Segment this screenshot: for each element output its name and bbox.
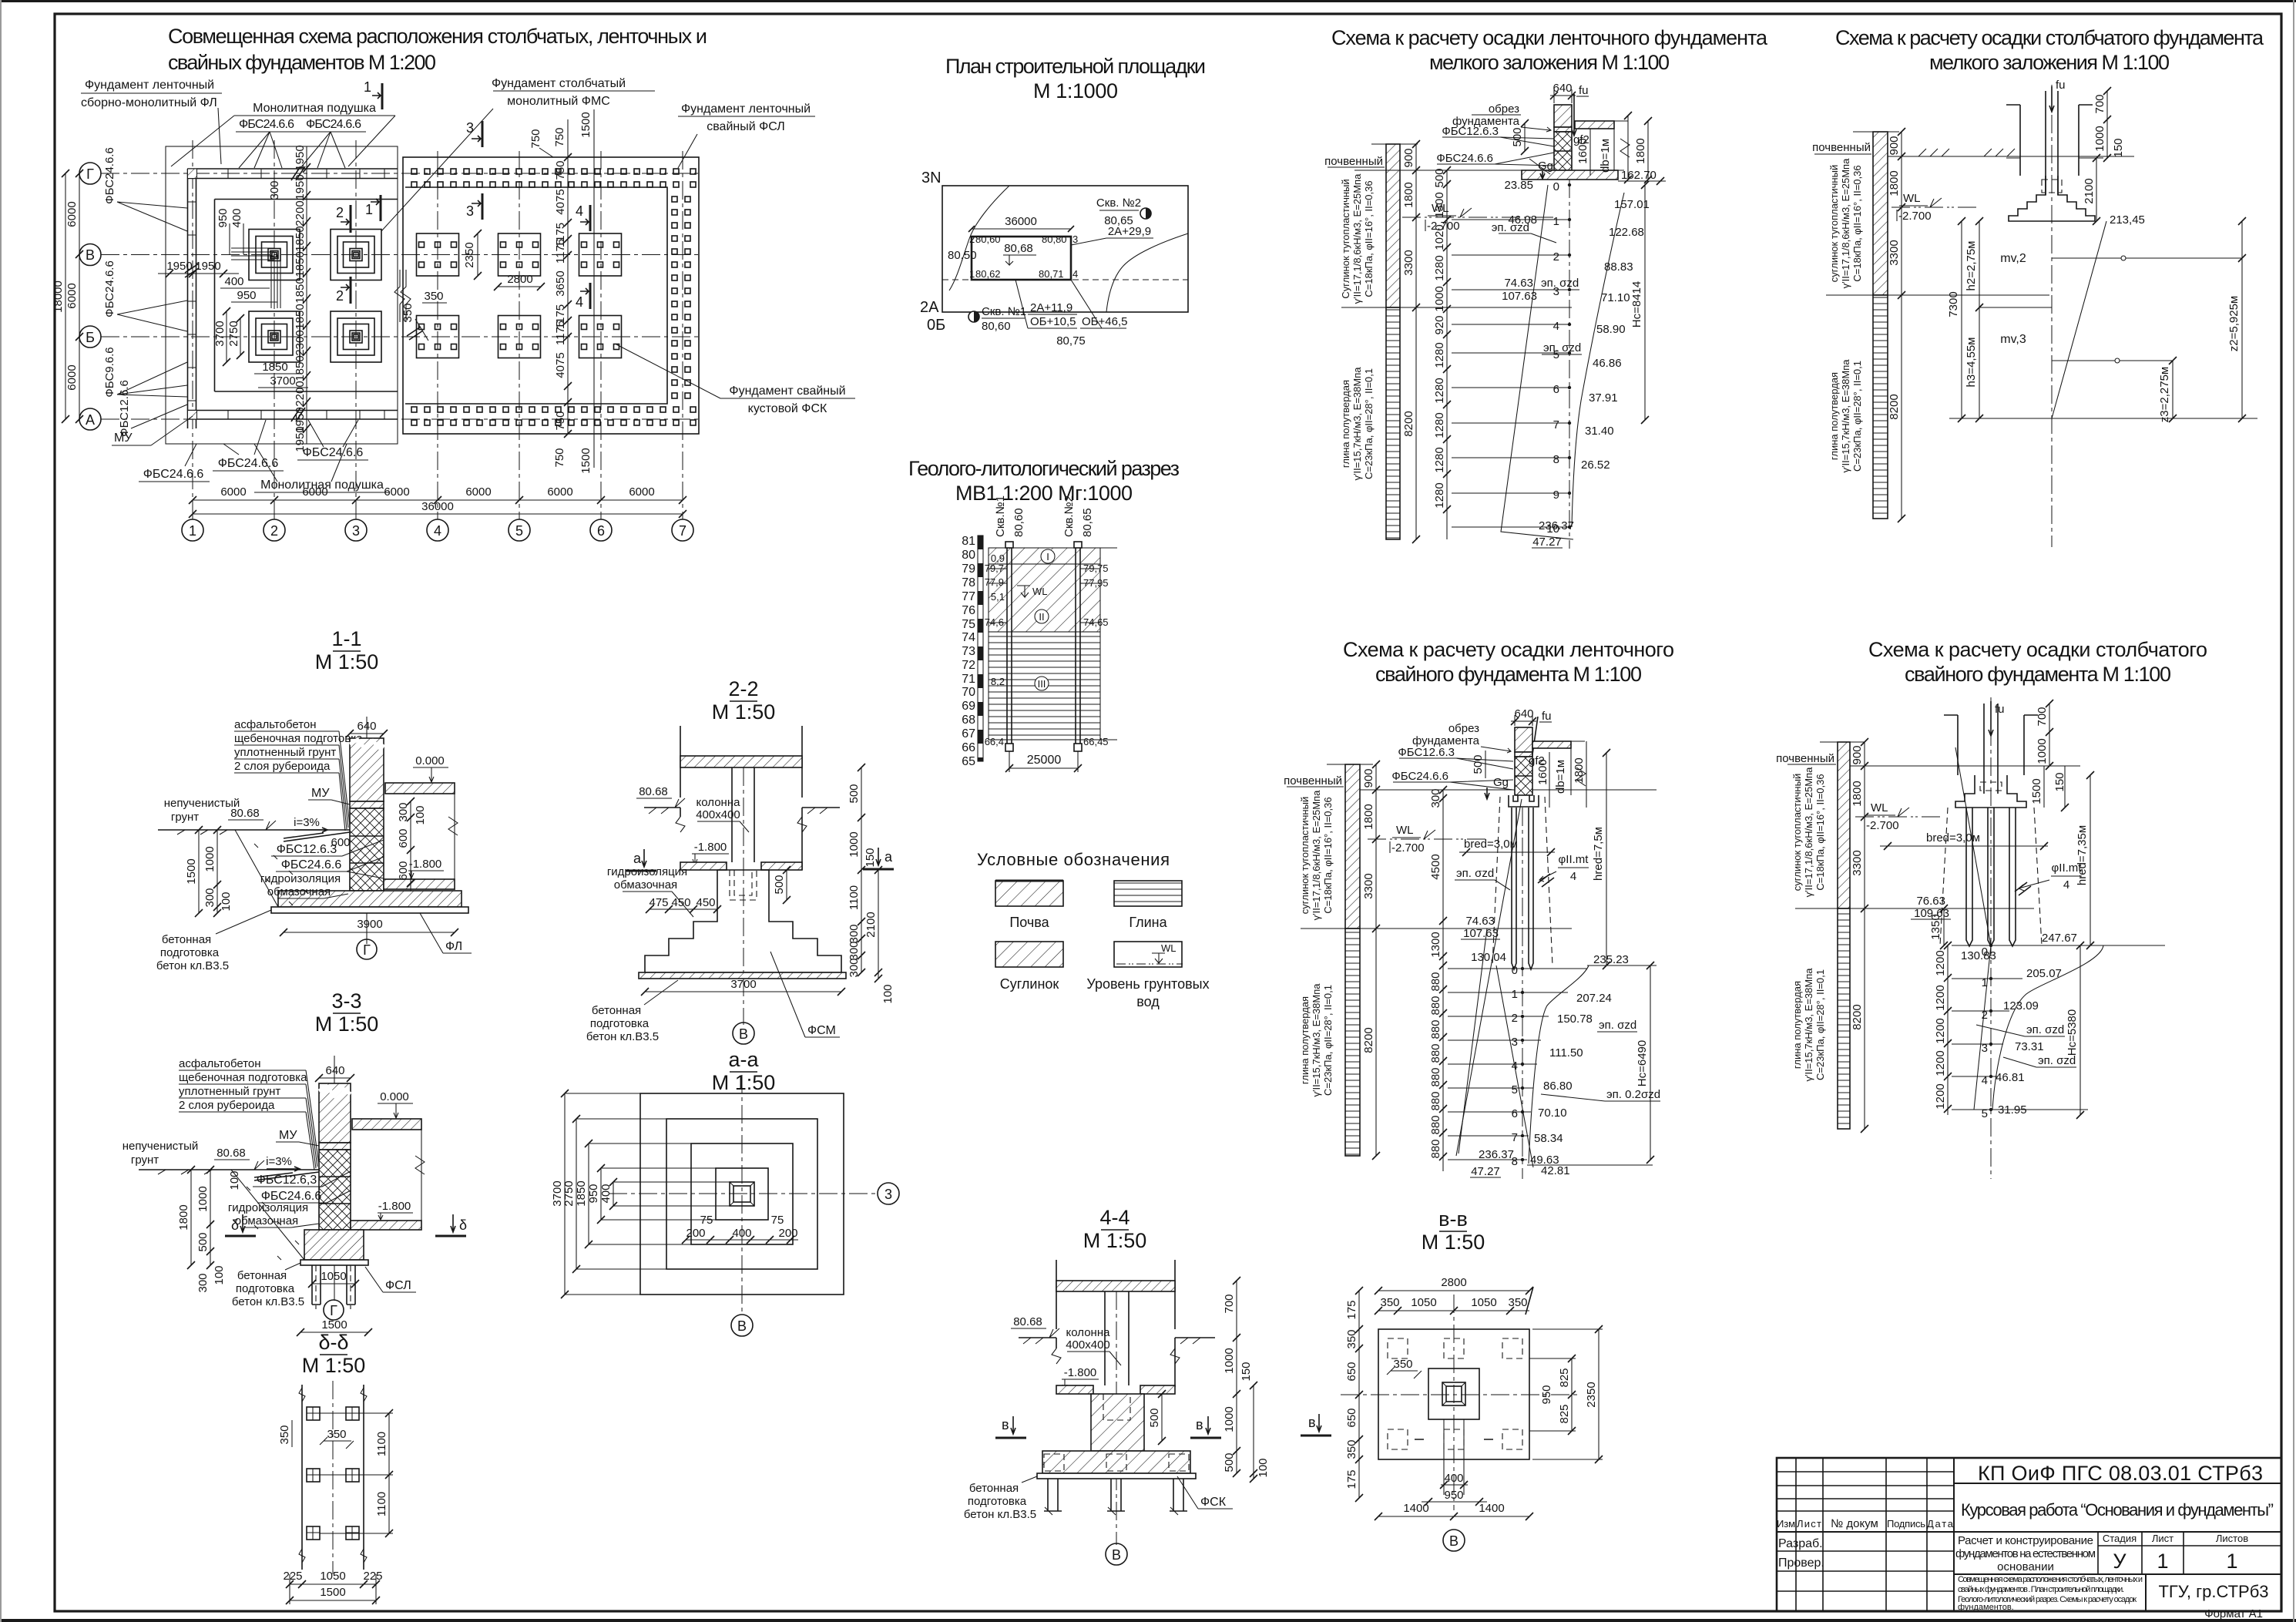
svg-text:2 слоя рубероида: 2 слоя рубероида bbox=[234, 760, 331, 773]
svg-text:В: В bbox=[1449, 1533, 1458, 1549]
svg-text:1280: 1280 bbox=[1433, 378, 1446, 403]
svg-text:γ′II=17,1/8,6кН/м3, Е=25Мпа: γ′II=17,1/8,6кН/м3, Е=25Мпа bbox=[1311, 790, 1322, 920]
svg-text:глина полутвердая: глина полутвердая bbox=[1791, 981, 1803, 1069]
anchor lines below foundation B2 bbox=[271, 255, 280, 309]
designation cell bbox=[1954, 1483, 2281, 1484]
MU slab bbox=[350, 801, 384, 808]
svg-text:640: 640 bbox=[357, 720, 376, 733]
svg-text:a-a: a-a bbox=[728, 1048, 759, 1071]
dims 1400 1400 bbox=[1378, 1516, 1529, 1517]
svg-text:WL: WL bbox=[1432, 202, 1449, 215]
svg-text:Почва: Почва bbox=[1009, 915, 1049, 930]
svg-text:3: 3 bbox=[1512, 1036, 1518, 1049]
anchor socket dashed bbox=[730, 870, 757, 900]
svg-text:2А+11,9: 2А+11,9 bbox=[1030, 301, 1072, 314]
column foundation ФМС Б2 bbox=[249, 311, 300, 362]
svg-text:450: 450 bbox=[696, 896, 715, 909]
svg-text:Схема к расчету осадки ленточ: Схема к расчету осадки ленточного фундам… bbox=[1331, 26, 1768, 49]
svg-text:i=3%: i=3% bbox=[294, 816, 320, 829]
pile cut marks row2 center bbox=[1415, 1439, 1493, 1440]
elevation scale bar bbox=[978, 536, 983, 761]
svg-text:1: 1 bbox=[365, 202, 373, 217]
svg-text:Суглинок тугопластичный: Суглинок тугопластичный bbox=[1340, 179, 1351, 298]
axis circle V bbox=[1443, 1530, 1465, 1551]
svg-text:2: 2 bbox=[336, 205, 344, 220]
bedding slab bbox=[271, 907, 468, 913]
svg-text:эп. 0.2σzd: эп. 0.2σzd bbox=[1606, 1088, 1660, 1101]
svg-text:1280: 1280 bbox=[1433, 342, 1446, 368]
column portal bbox=[2006, 105, 2093, 176]
soil column bbox=[1386, 144, 1400, 307]
svg-text:950: 950 bbox=[1540, 1385, 1553, 1404]
wall axis bbox=[334, 1056, 335, 1301]
svg-text:74.63: 74.63 bbox=[1465, 915, 1495, 928]
svg-text:WL: WL bbox=[1903, 192, 1921, 205]
bottom dim 3900 bbox=[284, 932, 455, 933]
svg-text:76.63: 76.63 bbox=[1916, 895, 1945, 908]
svg-text:500: 500 bbox=[1511, 127, 1524, 146]
svg-text:свайных фундаментов . План стр: свайных фундаментов . План строительной … bbox=[1958, 1585, 2124, 1594]
svg-text:В: В bbox=[86, 247, 95, 263]
foundation slab level bbox=[1056, 1385, 1093, 1394]
svg-text:КП ОиФ ПГС 08.03.01 СТРб3: КП ОиФ ПГС 08.03.01 СТРб3 bbox=[1978, 1462, 2263, 1485]
svg-text:гидроизоляция: гидроизоляция bbox=[228, 1201, 308, 1214]
svg-text:5: 5 bbox=[1512, 1083, 1518, 1096]
svg-text:δ-δ: δ-δ bbox=[318, 1331, 348, 1354]
svg-text:эп. σzd: эп. σzd bbox=[1492, 221, 1529, 234]
svg-text:М 1:50: М 1:50 bbox=[302, 1354, 366, 1377]
svg-text:2: 2 bbox=[336, 288, 344, 304]
svg-text:Уровень грунтовых: Уровень грунтовых bbox=[1086, 976, 1209, 992]
floor slab bbox=[1532, 741, 1571, 748]
svg-text:1400: 1400 bbox=[1479, 1502, 1504, 1515]
svg-text:80,50: 80,50 bbox=[948, 249, 977, 262]
svg-text:3700: 3700 bbox=[730, 978, 756, 991]
svg-text:бетон кл.В3.5: бетон кл.В3.5 bbox=[156, 959, 229, 972]
svg-text:150: 150 bbox=[2112, 138, 2125, 157]
Hc dimension bbox=[1644, 185, 1646, 420]
svg-text:4: 4 bbox=[1072, 268, 1078, 280]
svg-text:II: II bbox=[1039, 611, 1044, 623]
svg-text:-2.700: -2.700 bbox=[1898, 210, 1932, 223]
svg-text:1280: 1280 bbox=[1433, 482, 1446, 508]
svg-text:γ′II=17,1/8,6кН/м3, Е=25Мпа: γ′II=17,1/8,6кН/м3, Е=25Мпа bbox=[1803, 767, 1814, 897]
building rect bbox=[972, 237, 1071, 280]
svg-text:эп. σzd: эп. σzd bbox=[1543, 341, 1581, 354]
column square bbox=[1442, 1382, 1465, 1405]
column foundation ФМС В3 bbox=[331, 230, 381, 280]
svg-text:100: 100 bbox=[881, 984, 895, 1003]
svg-text:1: 1 bbox=[2157, 1550, 2168, 1573]
foundation wall bbox=[1515, 727, 1532, 752]
svg-text:3300: 3300 bbox=[1888, 240, 1901, 265]
central dimension chain bbox=[306, 146, 307, 444]
svg-text:1500: 1500 bbox=[320, 1586, 345, 1599]
svg-text:1850: 1850 bbox=[294, 251, 307, 277]
svg-text:ФСЛ: ФСЛ bbox=[385, 1279, 411, 1292]
svg-text:6000: 6000 bbox=[65, 364, 79, 390]
svg-text:mv,2: mv,2 bbox=[2000, 252, 2026, 265]
svg-text:6000: 6000 bbox=[65, 283, 79, 308]
water level swatch bbox=[1114, 942, 1182, 967]
svg-text:Скв. №1: Скв. №1 bbox=[982, 305, 1026, 318]
axis circle G bbox=[357, 939, 377, 959]
svg-text:колонна: колонна bbox=[697, 796, 741, 809]
ground hatch marks bbox=[1918, 149, 2015, 156]
svg-text:ФБС24.6.6: ФБС24.6.6 bbox=[103, 260, 116, 317]
svg-text:750: 750 bbox=[554, 160, 567, 180]
svg-text:ФБС24.6.6: ФБС24.6.6 bbox=[281, 858, 342, 871]
svg-text:бетон кл.В3.5: бетон кл.В3.5 bbox=[964, 1508, 1036, 1521]
svg-text:ФБС24.6.6: ФБС24.6.6 bbox=[303, 446, 364, 459]
svg-text:γ′II=15,7кН/м3, Е=38Мпа: γ′II=15,7кН/м3, Е=38Мпа bbox=[1803, 968, 1814, 1082]
soil swatch bbox=[995, 881, 1063, 906]
svg-text:1850: 1850 bbox=[294, 226, 307, 251]
svg-text:обмазочная: обмазочная bbox=[235, 1214, 298, 1227]
wall bbox=[350, 738, 384, 801]
pile dashed boundaries bbox=[1940, 808, 2042, 945]
bedding slab bbox=[1037, 1473, 1196, 1479]
pile cluster ФСК 4В bbox=[417, 233, 459, 276]
svg-text:эп. σzd: эп. σzd bbox=[1599, 1019, 1636, 1032]
svg-text:350: 350 bbox=[278, 1425, 291, 1444]
svg-text:ТГУ, гр.СТРб3: ТГУ, гр.СТРб3 bbox=[2158, 1582, 2268, 1601]
loam swatch bbox=[995, 942, 1063, 967]
svg-text:880: 880 bbox=[1429, 1091, 1442, 1110]
svg-text:80.68: 80.68 bbox=[217, 1147, 246, 1160]
svg-text:ФБС24.6.6: ФБС24.6.6 bbox=[306, 118, 361, 131]
svg-text:6000: 6000 bbox=[220, 485, 246, 499]
svg-text:fu: fu bbox=[1995, 703, 2005, 716]
bottom dims bbox=[290, 1583, 376, 1585]
svg-text:400: 400 bbox=[599, 1184, 613, 1203]
ground hatch near column bbox=[1944, 765, 2042, 767]
svg-text:Г: Г bbox=[86, 166, 94, 182]
svg-text:400: 400 bbox=[732, 1227, 751, 1240]
svg-text:1200: 1200 bbox=[1934, 950, 1947, 976]
bottom axis circles 1-7 bbox=[182, 519, 693, 541]
svg-text:Г: Г bbox=[363, 942, 371, 958]
svg-text:щебеночная подготовка: щебеночная подготовка bbox=[179, 1071, 307, 1084]
svg-text:150.78: 150.78 bbox=[1557, 1012, 1593, 1026]
wall lines bbox=[680, 726, 802, 870]
sigma curve bbox=[1529, 965, 1589, 1164]
svg-text:ОБ+46,5: ОБ+46,5 bbox=[1082, 315, 1127, 328]
svg-text:Формат А1: Формат А1 bbox=[2204, 1607, 2263, 1620]
sigma diagonal left bbox=[1501, 185, 1573, 539]
svg-text:γ′II=15,7кН/м3, Е=38Мпа: γ′II=15,7кН/м3, Е=38Мпа bbox=[1311, 983, 1322, 1097]
bottom dimension row 6000s bbox=[193, 500, 683, 514]
svg-text:Фундамент столбчатый: Фундамент столбчатый bbox=[492, 77, 626, 90]
svg-text:У: У bbox=[2113, 1550, 2126, 1573]
svg-text:3300: 3300 bbox=[1362, 873, 1375, 898]
svg-text:непученистый: непученистый bbox=[123, 1140, 199, 1153]
svg-text:фундаментов на естественном: фундаментов на естественном bbox=[1955, 1547, 2096, 1560]
borehole 1 symbol bbox=[968, 311, 979, 322]
svg-text:Совмещенная схема расположения: Совмещенная схема расположения столбчаты… bbox=[1958, 1575, 2143, 1584]
svg-text:γ′II=17,1/8,6кН/м3, Е=25Мпа: γ′II=17,1/8,6кН/м3, Е=25Мпа bbox=[1351, 173, 1363, 304]
svg-text:1200: 1200 bbox=[1934, 1083, 1947, 1109]
svg-text:1175: 1175 bbox=[554, 239, 567, 264]
svg-text:-2.700: -2.700 bbox=[1427, 220, 1460, 233]
ground line bbox=[1354, 144, 1624, 170]
svg-text:Скв.№2: Скв.№2 bbox=[1062, 495, 1076, 537]
svg-text:Изм: Изм bbox=[1777, 1518, 1795, 1530]
svg-text:4: 4 bbox=[1570, 870, 1576, 883]
layer boundary bbox=[1301, 928, 1572, 929]
page right edge bbox=[2293, 0, 2294, 1622]
svg-text:225: 225 bbox=[283, 1570, 302, 1583]
anchor dashed bbox=[1103, 1394, 1130, 1420]
svg-text:600: 600 bbox=[397, 861, 410, 880]
svg-text:650: 650 bbox=[1345, 1362, 1358, 1381]
svg-text:3: 3 bbox=[884, 1187, 892, 1202]
svg-text:71: 71 bbox=[962, 673, 975, 686]
svg-text:1800: 1800 bbox=[1573, 757, 1586, 783]
svg-text:950: 950 bbox=[587, 1184, 600, 1203]
svg-text:В: В bbox=[737, 1318, 747, 1334]
ceiling slab bbox=[1056, 1281, 1175, 1291]
svg-text:бетонная: бетонная bbox=[969, 1482, 1019, 1495]
svg-text:3650: 3650 bbox=[554, 270, 567, 296]
svg-text:80.68: 80.68 bbox=[1013, 1315, 1042, 1328]
borehole 2 column bbox=[1076, 546, 1080, 749]
layer boundary bbox=[1795, 908, 2034, 909]
svg-text:9: 9 bbox=[1553, 489, 1559, 502]
svg-text:Разраб.: Разраб. bbox=[1778, 1537, 1823, 1550]
axis lines horizontal bbox=[101, 173, 699, 419]
svg-text:асфальтобетон: асфальтобетон bbox=[234, 718, 317, 731]
svg-text:69: 69 bbox=[962, 700, 975, 713]
axis circle V bbox=[733, 1023, 754, 1044]
svg-text:С=23кПа, φII=28°, II=0,1: С=23кПа, φII=28°, II=0,1 bbox=[1363, 368, 1375, 479]
svg-text:МВ1 1:200 Мг:1000: МВ1 1:200 Мг:1000 bbox=[955, 482, 1133, 505]
svg-text:1: 1 bbox=[2226, 1550, 2237, 1573]
step dims 475 450 450 bbox=[650, 908, 717, 910]
svg-text:3300: 3300 bbox=[1402, 250, 1415, 275]
break marks bbox=[1052, 1348, 1180, 1364]
svg-text:600: 600 bbox=[397, 828, 410, 848]
svg-text:1200: 1200 bbox=[1934, 985, 1947, 1010]
foundation top slab bbox=[680, 862, 727, 870]
svg-text:68: 68 bbox=[962, 714, 975, 727]
dim 640 bbox=[350, 733, 384, 734]
svg-text:1850: 1850 bbox=[294, 277, 307, 303]
Hc dim bbox=[1650, 965, 1651, 1160]
svg-text:колонна: колонна bbox=[1066, 1326, 1111, 1339]
svg-text:500: 500 bbox=[1472, 754, 1485, 774]
svg-text:МУ: МУ bbox=[311, 787, 330, 800]
svg-text:Hc=5380: Hc=5380 bbox=[2066, 1009, 2079, 1056]
ground hatches bbox=[644, 807, 840, 808]
svg-text:1100: 1100 bbox=[848, 885, 861, 910]
svg-text:900: 900 bbox=[1362, 768, 1375, 787]
wall bbox=[319, 1083, 351, 1143]
svg-text:1000: 1000 bbox=[1223, 1406, 1236, 1432]
pile cap bbox=[1509, 795, 1539, 807]
svg-text:200: 200 bbox=[778, 1227, 797, 1240]
svg-text:350: 350 bbox=[401, 303, 415, 322]
bedding slab bbox=[639, 972, 846, 979]
column bbox=[732, 767, 754, 862]
layer II suglinok bbox=[989, 564, 1100, 632]
svg-text:950: 950 bbox=[1444, 1489, 1463, 1502]
svg-text:3900: 3900 bbox=[357, 918, 382, 931]
svg-text:1800: 1800 bbox=[1888, 170, 1901, 196]
svg-text:ФБС9.6.6: ФБС9.6.6 bbox=[103, 347, 116, 397]
svg-text:Скв.№1: Скв.№1 bbox=[994, 495, 1007, 537]
svg-text:23.85: 23.85 bbox=[1504, 179, 1533, 192]
svg-text:400х400: 400х400 bbox=[696, 808, 740, 821]
layer boundary ticks bbox=[989, 569, 1117, 740]
svg-text:Фундамент ленточный: Фундамент ленточный bbox=[681, 102, 811, 116]
svg-text:эп. σzd: эп. σzd bbox=[2026, 1023, 2064, 1036]
WL mark bbox=[1892, 207, 1976, 208]
svg-text:ФБС12.6.3: ФБС12.6.3 bbox=[277, 843, 337, 856]
svg-text:1300: 1300 bbox=[1429, 932, 1442, 957]
svg-text:66,4: 66,4 bbox=[985, 736, 1004, 747]
svg-text:225: 225 bbox=[363, 1570, 382, 1583]
svg-text:123.09: 123.09 bbox=[2003, 999, 2039, 1012]
floor slab bbox=[352, 1119, 421, 1130]
svg-text:С=18кПа, φII=16°, II=0,36: С=18кПа, φII=16°, II=0,36 bbox=[1322, 797, 1334, 913]
svg-text:6000: 6000 bbox=[465, 485, 491, 499]
svg-text:80,80: 80,80 bbox=[1042, 233, 1067, 245]
svg-text:350: 350 bbox=[1345, 1439, 1358, 1459]
svg-text:1050: 1050 bbox=[321, 1270, 346, 1283]
bottom dim 25000 bbox=[1009, 751, 1078, 772]
svg-text:0Б: 0Б bbox=[927, 317, 945, 334]
svg-text:76: 76 bbox=[962, 604, 975, 617]
svg-text:0: 0 bbox=[1553, 180, 1559, 193]
svg-text:100: 100 bbox=[213, 1265, 226, 1285]
svg-text:18000: 18000 bbox=[52, 280, 65, 313]
svg-text:1000: 1000 bbox=[848, 831, 861, 857]
svg-text:1100: 1100 bbox=[375, 1492, 388, 1516]
axis circle V bbox=[1106, 1543, 1127, 1565]
pile cluster ФСК 6В bbox=[579, 233, 622, 276]
svg-text:750: 750 bbox=[529, 129, 542, 148]
svg-text:В: В bbox=[739, 1026, 748, 1042]
svg-text:4075: 4075 bbox=[554, 352, 567, 378]
svg-text:кустовой ФСК: кустовой ФСК bbox=[748, 402, 827, 415]
svg-text:2: 2 bbox=[1512, 1012, 1518, 1025]
svg-text:М 1:50: М 1:50 bbox=[1422, 1231, 1485, 1254]
svg-text:-1.800: -1.800 bbox=[409, 858, 442, 871]
FBS blocks bbox=[350, 808, 384, 891]
svg-text:свайных фундаментов М 1:200: свайных фундаментов М 1:200 bbox=[168, 51, 436, 74]
points 0-5 bbox=[1989, 944, 1992, 1111]
svg-text:Скв. №2: Скв. №2 bbox=[1096, 196, 1141, 210]
svg-text:130.04: 130.04 bbox=[1471, 951, 1506, 964]
svg-text:8200: 8200 bbox=[1851, 1004, 1864, 1029]
svg-text:3300: 3300 bbox=[1851, 850, 1864, 875]
pedestal bbox=[1091, 1394, 1144, 1451]
svg-text:157.01: 157.01 bbox=[1614, 198, 1650, 211]
svg-text:640: 640 bbox=[325, 1064, 344, 1077]
svg-text:С=18кПа, φII=16°, II=0,36: С=18кПа, φII=16°, II=0,36 bbox=[1814, 774, 1826, 890]
svg-text:80,75: 80,75 bbox=[1056, 334, 1086, 348]
svg-text:1800: 1800 bbox=[1402, 182, 1415, 207]
layer dims bbox=[1375, 764, 1377, 1156]
cap steps bbox=[1955, 775, 2026, 808]
svg-text:сборно-монолитный ФЛ: сборно-монолитный ФЛ bbox=[81, 96, 217, 109]
bottom dim 3700 bbox=[645, 991, 841, 992]
strip wall band bottom bbox=[188, 391, 398, 419]
section mark 2 lower bbox=[350, 277, 352, 304]
svg-text:475: 475 bbox=[649, 896, 668, 909]
break marks walls bbox=[676, 817, 807, 832]
svg-text:WL: WL bbox=[1161, 942, 1177, 954]
svg-text:z2=5,925м: z2=5,925м bbox=[2227, 296, 2241, 351]
svg-text:2350: 2350 bbox=[463, 242, 476, 267]
svg-text:1600: 1600 bbox=[1576, 138, 1589, 163]
main rect bbox=[1378, 1329, 1529, 1459]
svg-text:Б: Б bbox=[86, 330, 95, 345]
svg-text:обмазочная: обмазочная bbox=[614, 878, 677, 892]
svg-text:7: 7 bbox=[1553, 418, 1559, 432]
svg-text:3700: 3700 bbox=[213, 321, 227, 346]
axis circle Г bbox=[79, 163, 101, 184]
svg-text:3: 3 bbox=[466, 203, 474, 219]
svg-text:213,45: 213,45 bbox=[2110, 213, 2145, 227]
block joints top band bbox=[228, 169, 384, 179]
svg-text:1950: 1950 bbox=[166, 260, 192, 273]
hred dim bbox=[1606, 753, 1607, 965]
dims 1100 right bbox=[388, 1413, 390, 1533]
svg-text:75: 75 bbox=[700, 1214, 713, 1227]
svg-text:400: 400 bbox=[230, 208, 243, 227]
layer boundary bbox=[1826, 294, 2049, 296]
svg-text:1850: 1850 bbox=[575, 1180, 588, 1206]
pile dashed squares row 2 bbox=[1388, 1429, 1522, 1449]
svg-text:71.10: 71.10 bbox=[1601, 291, 1630, 304]
svg-text:Расчет и конструирование: Расчет и конструирование bbox=[1958, 1534, 2093, 1547]
svg-text:25000: 25000 bbox=[1027, 754, 1062, 767]
svg-text:подготовка: подготовка bbox=[236, 1282, 295, 1295]
svg-text:750: 750 bbox=[553, 448, 566, 467]
svg-text:5: 5 bbox=[515, 523, 523, 539]
ground line bbox=[1327, 764, 1657, 790]
axis circle G bbox=[324, 1300, 344, 1320]
svg-text:hred=7,5м: hred=7,5м bbox=[1592, 827, 1605, 881]
svg-text:26.52: 26.52 bbox=[1581, 458, 1610, 472]
svg-text:880: 880 bbox=[1429, 1043, 1442, 1063]
svg-text:2300: 2300 bbox=[294, 330, 307, 355]
svg-text:70: 70 bbox=[962, 686, 975, 699]
svg-text:a: a bbox=[633, 851, 642, 866]
soil dots bbox=[254, 844, 308, 905]
piles bbox=[1512, 808, 1533, 969]
soil column bbox=[1345, 764, 1360, 929]
svg-text:С=23кПа, φII=28°, II=0,1: С=23кПа, φII=28°, II=0,1 bbox=[1851, 361, 1863, 472]
svg-text:2750: 2750 bbox=[562, 1180, 576, 1206]
left dims bbox=[1358, 1291, 1360, 1498]
bottom line bbox=[1949, 418, 2257, 419]
svg-text:fu: fu bbox=[1542, 710, 1552, 723]
svg-text:175: 175 bbox=[1345, 1300, 1358, 1319]
svg-text:План строительной площадки: План строительной площадки bbox=[945, 55, 1206, 78]
diagonal bbox=[2052, 221, 2106, 418]
svg-text:основании: основании bbox=[1997, 1560, 2054, 1573]
svg-text:31.40: 31.40 bbox=[1585, 425, 1614, 438]
svg-text:1350: 1350 bbox=[1929, 914, 1942, 939]
svg-text:66,45: 66,45 bbox=[1083, 736, 1109, 747]
svg-text:ФБС24.6.6: ФБС24.6.6 bbox=[103, 147, 116, 204]
svg-text:500: 500 bbox=[1223, 1452, 1236, 1472]
svg-text:Hc=8414: Hc=8414 bbox=[1630, 281, 1643, 327]
svg-text:80,71: 80,71 bbox=[1039, 268, 1064, 280]
